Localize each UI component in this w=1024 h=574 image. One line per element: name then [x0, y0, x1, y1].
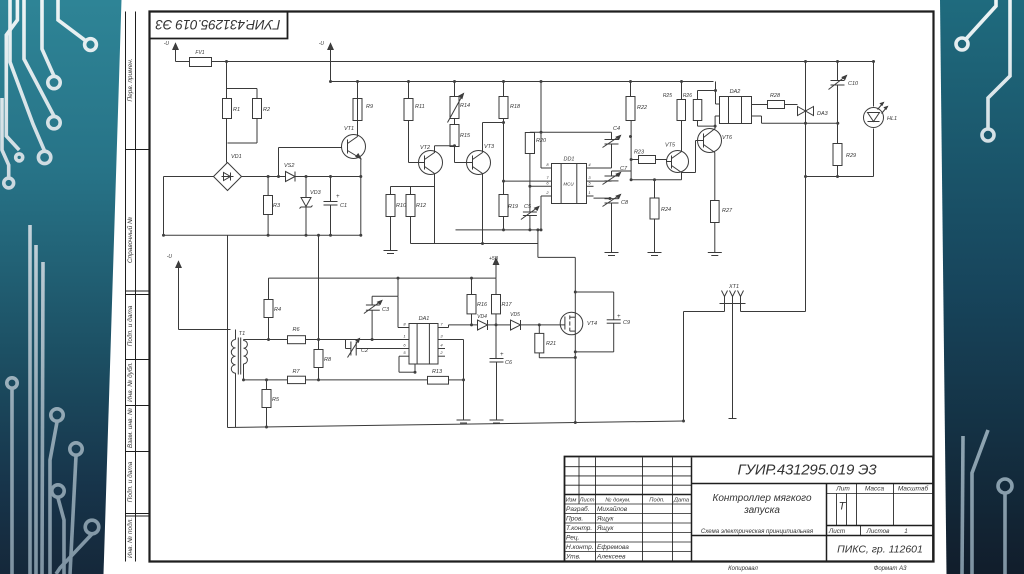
svg-text:Изм: Изм	[566, 498, 577, 504]
svg-text:Взам. инв. №: Взам. инв. №	[127, 408, 134, 448]
svg-text:VS2: VS2	[284, 163, 294, 169]
svg-text:Н.контр.: Н.контр.	[566, 544, 594, 551]
svg-text:Дата: Дата	[673, 498, 690, 504]
svg-text:5: 5	[403, 350, 406, 355]
svg-text:запуска: запуска	[743, 505, 780, 516]
svg-text:7: 7	[440, 322, 443, 327]
svg-text:XT1: XT1	[728, 284, 739, 290]
svg-text:C3: C3	[382, 307, 390, 313]
svg-text:R8: R8	[324, 357, 332, 363]
svg-text:C8: C8	[621, 200, 629, 206]
svg-text:Подп. и дата: Подп. и дата	[126, 461, 134, 502]
svg-text:VT2: VT2	[420, 145, 430, 151]
svg-text:R6: R6	[292, 327, 300, 333]
svg-text:ПИКС, гр. 112601: ПИКС, гр. 112601	[837, 544, 923, 556]
svg-text:VT4: VT4	[587, 321, 597, 327]
svg-text:DA2: DA2	[730, 89, 741, 95]
svg-text:8: 8	[546, 162, 549, 167]
svg-text:R26: R26	[683, 93, 692, 99]
svg-text:R14: R14	[460, 103, 470, 109]
svg-text:№ докум.: № докум.	[605, 498, 631, 504]
svg-text:R1: R1	[233, 107, 240, 113]
svg-text:2: 2	[545, 190, 549, 195]
svg-text:R20: R20	[536, 138, 547, 144]
svg-text:Ящук: Ящук	[596, 525, 614, 532]
svg-text:Инв. № подл.: Инв. № подл.	[126, 518, 134, 559]
svg-text:C4: C4	[613, 126, 620, 132]
svg-text:Схема электрическая принципиал: Схема электрическая принципиальная	[701, 528, 814, 535]
svg-text:R7: R7	[292, 369, 300, 375]
svg-text:R13: R13	[432, 369, 443, 375]
svg-text:C1: C1	[340, 203, 347, 209]
svg-text:Листов: Листов	[866, 528, 891, 535]
svg-text:DA1: DA1	[419, 316, 430, 322]
svg-text:R2: R2	[263, 107, 270, 113]
svg-text:Контроллер мягкого: Контроллер мягкого	[712, 493, 811, 504]
svg-text:3: 3	[440, 334, 443, 339]
svg-text:HL1: HL1	[887, 116, 897, 122]
svg-text:Алексеев: Алексеев	[596, 553, 626, 560]
svg-text:Ящук: Ящук	[596, 515, 614, 522]
svg-text:C9: C9	[623, 320, 630, 326]
svg-text:DD1: DD1	[563, 157, 574, 163]
svg-text:R18: R18	[510, 104, 521, 110]
svg-text:-U: -U	[319, 41, 325, 47]
svg-text:VD1: VD1	[231, 154, 242, 160]
svg-text:Подп.: Подп.	[649, 498, 664, 504]
svg-text:+: +	[617, 314, 621, 320]
svg-text:Подп. и дата: Подп. и дата	[126, 305, 134, 346]
svg-text:R17: R17	[502, 302, 513, 308]
svg-text:Масштаб: Масштаб	[898, 485, 929, 493]
svg-text:Пров.: Пров.	[566, 515, 583, 522]
svg-text:C5: C5	[524, 204, 532, 210]
svg-text:4: 4	[588, 162, 591, 167]
svg-text:+: +	[500, 352, 504, 358]
svg-text:T1: T1	[239, 331, 245, 337]
svg-text:VT1: VT1	[344, 126, 354, 132]
svg-text:C6: C6	[505, 360, 513, 366]
svg-text:Лист: Лист	[828, 528, 845, 535]
svg-text:R23: R23	[634, 150, 645, 156]
svg-text:R12: R12	[416, 203, 426, 209]
svg-text:2: 2	[439, 350, 443, 355]
svg-text:R28: R28	[770, 93, 781, 99]
svg-text:8: 8	[403, 322, 406, 327]
svg-text:C10: C10	[848, 81, 859, 87]
svg-text:Лит: Лит	[835, 486, 850, 493]
svg-text:Перв. примен.: Перв. примен.	[127, 58, 134, 101]
svg-text:+: +	[336, 194, 340, 200]
svg-text:Инв. № дубл.: Инв. № дубл.	[126, 362, 134, 402]
svg-text:Михайлов: Михайлов	[597, 505, 628, 513]
svg-text:+5Β: +5Β	[489, 256, 499, 262]
svg-text:R10: R10	[396, 203, 407, 209]
svg-text:VT5: VT5	[665, 143, 676, 149]
svg-text:VT6: VT6	[722, 135, 733, 141]
svg-text:R5: R5	[272, 397, 280, 403]
svg-text:-U: -U	[167, 254, 173, 260]
svg-text:R22: R22	[637, 105, 647, 111]
svg-text:R27: R27	[722, 208, 733, 214]
svg-text:VT3: VT3	[484, 144, 495, 150]
svg-text:Рец.: Рец.	[566, 534, 580, 541]
svg-text:Формат А3: Формат А3	[874, 566, 907, 572]
svg-text:Ефремова: Ефремова	[597, 544, 629, 551]
svg-text:R15: R15	[460, 133, 471, 139]
svg-text:Лист: Лист	[579, 498, 595, 504]
svg-text:Т: Т	[839, 501, 847, 513]
svg-text:R9: R9	[366, 104, 373, 110]
svg-text:FV1: FV1	[195, 50, 204, 56]
svg-text:R4: R4	[274, 307, 281, 313]
svg-text:1: 1	[588, 190, 590, 195]
svg-text:Справочный №: Справочный №	[126, 217, 134, 263]
svg-text:1: 1	[403, 334, 405, 339]
svg-text:ГУИР.431295.019 Э3: ГУИР.431295.019 Э3	[155, 17, 280, 32]
svg-text:MCU: MCU	[563, 182, 574, 187]
svg-text:DA3: DA3	[817, 111, 829, 117]
svg-text:VD3: VD3	[310, 190, 322, 196]
svg-text:R21: R21	[546, 341, 556, 347]
svg-text:4: 4	[440, 343, 443, 348]
svg-text:R11: R11	[415, 104, 425, 110]
svg-text:R3: R3	[273, 203, 281, 209]
svg-text:1: 1	[904, 528, 908, 535]
svg-text:R19: R19	[508, 204, 518, 210]
svg-text:R24: R24	[661, 207, 671, 213]
svg-text:R29: R29	[846, 153, 856, 159]
svg-text:R25: R25	[663, 93, 672, 99]
svg-text:-U: -U	[164, 41, 170, 47]
svg-text:ГУИР.431295.019 Э3: ГУИР.431295.019 Э3	[738, 462, 878, 479]
svg-text:Разраб.: Разраб.	[566, 505, 590, 513]
svg-text:C2: C2	[361, 348, 368, 354]
svg-text:Утв.: Утв.	[565, 553, 581, 560]
svg-text:VD4: VD4	[477, 314, 487, 320]
svg-text:C7: C7	[620, 166, 628, 172]
svg-text:VD5: VD5	[510, 312, 520, 318]
svg-text:Масса: Масса	[865, 486, 885, 493]
svg-text:Копировал: Копировал	[728, 566, 758, 572]
svg-text:Т.контр.: Т.контр.	[566, 525, 592, 532]
svg-text:6: 6	[403, 343, 406, 348]
svg-text:R16: R16	[477, 302, 488, 308]
